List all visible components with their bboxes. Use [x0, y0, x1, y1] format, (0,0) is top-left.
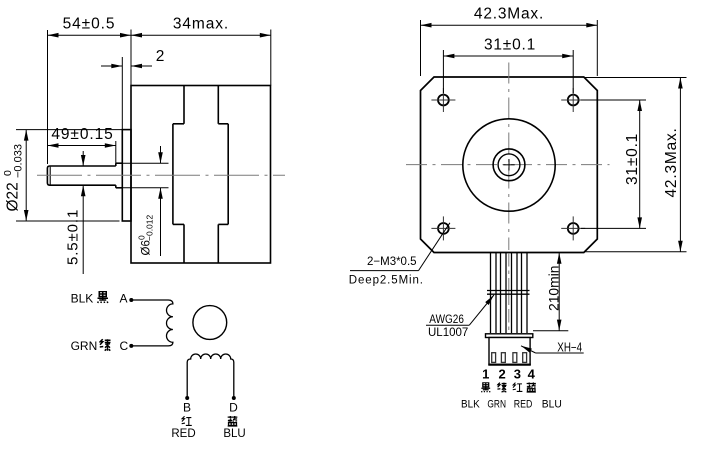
- svg-text:GRN: GRN: [71, 339, 98, 353]
- svg-text:Deep2.5Min.: Deep2.5Min.: [349, 274, 424, 286]
- dimension 54±0.5: [48, 16, 132, 165]
- svg-text:BLK: BLK: [461, 398, 480, 410]
- four mounting holes 2-M3: [431, 88, 585, 240]
- svg-text:Ø6: Ø6: [141, 240, 153, 255]
- svg-text:RED: RED: [514, 398, 533, 410]
- pin colors BLK GRN RED BLU: [461, 398, 562, 410]
- svg-text:A: A: [120, 292, 128, 306]
- svg-text:42.3Max.: 42.3Max.: [474, 6, 544, 23]
- svg-text:2: 2: [498, 367, 505, 382]
- label 红: [182, 416, 192, 425]
- shaft diameter extension lines: [122, 163, 168, 188]
- note AWG26 UL1007 with leader arrow: [426, 295, 494, 339]
- svg-text:2−M3*0.5: 2−M3*0.5: [367, 256, 417, 268]
- svg-text:AWG26: AWG26: [429, 314, 464, 326]
- svg-text:GRN: GRN: [487, 398, 506, 410]
- svg-text:3: 3: [514, 367, 521, 382]
- coil A-C (vertical inductor): [131, 300, 173, 346]
- svg-text:BLU: BLU: [542, 398, 562, 410]
- lead wires bundle: [491, 253, 528, 333]
- node A dot: [129, 298, 133, 302]
- dimension 31±0.1 top: [443, 37, 573, 94]
- dimension Ø6 0/-0.012: [137, 146, 163, 256]
- label D: [229, 400, 238, 414]
- dimension 42.3Max. top: [421, 6, 598, 77]
- svg-text:B: B: [183, 400, 191, 414]
- label B: [183, 400, 191, 414]
- connector pin slots: [492, 353, 527, 363]
- label GRN 绿 C: [71, 339, 129, 353]
- pilot circle Ø22 front view: [463, 119, 555, 211]
- dimension Ø22 0/-0.033: [2, 130, 122, 221]
- svg-text:RED: RED: [171, 428, 195, 440]
- dimension 42.3Max. right: [584, 78, 687, 252]
- label RED: [171, 428, 195, 440]
- dimension 210min: [533, 253, 568, 331]
- svg-text:UL1007: UL1007: [428, 327, 468, 339]
- svg-text:42.3Max.: 42.3Max.: [663, 127, 680, 197]
- dimension 2 (pilot thickness): [101, 48, 164, 130]
- node D dot: [232, 396, 236, 400]
- label 蓝: [228, 416, 238, 426]
- front view vertical centerline: [508, 63, 510, 332]
- shaft side view: [47, 163, 122, 188]
- wire band: [487, 291, 530, 295]
- svg-text:BLU: BLU: [223, 428, 245, 440]
- rotor circle: [193, 306, 227, 340]
- svg-text:34max.: 34max.: [173, 16, 229, 33]
- motor body side view outline: [131, 86, 271, 264]
- svg-text:4: 4: [528, 367, 536, 382]
- svg-text:Ø22: Ø22: [5, 182, 22, 211]
- note XH-4 with leader arrow: [521, 340, 584, 354]
- pin numbers 1 2 3 4: [482, 367, 536, 382]
- svg-text:−0.033: −0.033: [13, 144, 25, 178]
- node B dot: [185, 396, 189, 400]
- connector XH-4 housing: [486, 334, 533, 365]
- shaft boss circle: [493, 149, 525, 181]
- coil B-D (horizontal inductor): [187, 354, 234, 398]
- svg-text:5.5±0.1: 5.5±0.1: [65, 209, 82, 265]
- svg-text:31±0.1: 31±0.1: [624, 133, 641, 185]
- left view horizontal centerline: [37, 174, 285, 176]
- svg-text:2: 2: [156, 48, 165, 65]
- shaft circle front view: [498, 154, 520, 176]
- svg-text:C: C: [120, 339, 129, 353]
- motor body internal stator profile: [173, 86, 228, 264]
- svg-text:1: 1: [482, 367, 489, 382]
- front view horizontal centerline: [406, 164, 610, 166]
- pilot boss (flange) side view: [122, 130, 131, 221]
- pin colors CJK 黑 绿 红 蓝: [481, 382, 536, 392]
- dimension 5.5±0.1: [65, 151, 86, 274]
- svg-text:210min: 210min: [545, 266, 561, 312]
- svg-text:54±0.5: 54±0.5: [63, 16, 116, 33]
- dimension 34max.: [131, 16, 271, 86]
- label BLU: [223, 428, 245, 440]
- dimension 31±0.1 right: [581, 100, 646, 228]
- svg-text:XH−4: XH−4: [557, 340, 582, 354]
- node C dot: [129, 344, 133, 348]
- label BLK 黑 A: [71, 292, 128, 306]
- note 2-M3*0.5 Deep2.5Min. with leader: [349, 223, 450, 286]
- svg-text:49±0.15: 49±0.15: [51, 126, 113, 143]
- svg-text:D: D: [229, 400, 238, 414]
- motor front view square with chamfered corners: [421, 77, 598, 253]
- dimension 49±0.15: [48, 126, 116, 163]
- svg-text:−0.012: −0.012: [145, 214, 155, 241]
- svg-text:31±0.1: 31±0.1: [484, 37, 536, 54]
- svg-text:BLK: BLK: [71, 292, 94, 306]
